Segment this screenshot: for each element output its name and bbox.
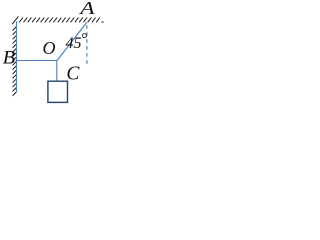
svg-text:C: C: [66, 64, 80, 85]
svg-text:45: 45: [66, 35, 82, 52]
svg-text:B: B: [3, 47, 16, 68]
svg-text:A: A: [78, 0, 95, 18]
svg-text:°: °: [81, 31, 88, 48]
svg-text:O: O: [43, 38, 56, 58]
